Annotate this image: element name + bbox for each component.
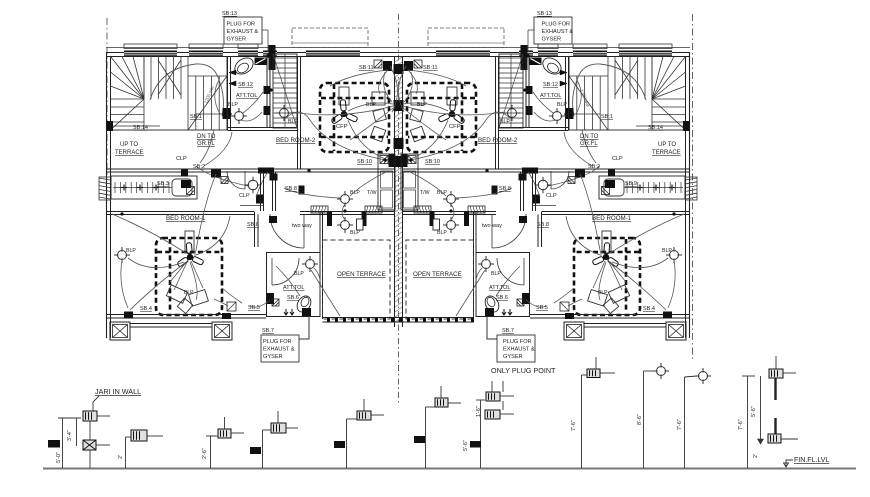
wires bedroom-2: [348, 103, 393, 111]
svg-text:PLUG FOR: PLUG FOR: [542, 22, 571, 28]
svg-text:BLP: BLP: [437, 230, 447, 236]
svg-text:CLP: CLP: [612, 156, 623, 162]
svg-text:BLP: BLP: [288, 119, 298, 125]
elevation stem 6: [425, 407, 427, 468]
ceiling fan CFP bedroom-2: [331, 100, 358, 125]
svg-text:EXHAUST &: EXHAUST &: [227, 29, 259, 35]
bed (bedroom-2): [320, 83, 389, 152]
wall toilet/duct: [266, 57, 268, 129]
svg-text:SB:12: SB:12: [238, 82, 253, 88]
svg-text:SB.6: SB.6: [496, 295, 508, 301]
window sill outline x189: [189, 44, 223, 49]
svg-text:BLP: BLP: [500, 119, 510, 125]
staircase: [111, 57, 228, 131]
roof edge line: [106, 47, 690, 49]
svg-text:TERRACE: TERRACE: [115, 150, 144, 156]
hall/front wall y169: [107, 168, 395, 170]
svg-text:PLUG FOR: PLUG FOR: [503, 339, 532, 345]
SB.4 socket block: [124, 312, 133, 319]
stair wire arc (1200 watt run): [150, 64, 223, 116]
party wall block hub: [394, 100, 404, 111]
black box att.toilet south: [302, 308, 311, 316]
svg-text:SB:14: SB:14: [648, 125, 663, 131]
svg-text:2': 2': [118, 455, 124, 459]
junction dot: [269, 88, 272, 91]
SB:10 wall block: [389, 154, 395, 167]
wire SB.5 to bed: [222, 288, 242, 303]
svg-text:ATT.TOL: ATT.TOL: [236, 93, 258, 99]
elevation stem 8'-6" with lamp: [643, 371, 645, 468]
svg-text:SB:13: SB:13: [222, 11, 237, 17]
lamp BLP corridor lower: [337, 217, 353, 233]
center party line (dash-dot): [398, 14, 400, 405]
window sill hatched x365: [365, 206, 382, 213]
svg-text:SB:10: SB:10: [357, 159, 372, 165]
SB:1 connection box on stair wall: [223, 108, 231, 119]
svg-text:BLP: BLP: [662, 248, 672, 254]
junction dot: [383, 158, 386, 161]
door arc into att.toilet: [272, 258, 299, 285]
arrow marks toilet: [229, 70, 236, 75]
svg-text:SB.8: SB.8: [499, 186, 511, 192]
elevation right stack: socket boxes: [769, 369, 783, 378]
svg-text:SB:2: SB:2: [193, 164, 205, 170]
black box at bedroom1 door: [269, 216, 277, 223]
svg-text:7'-6": 7'-6": [571, 420, 577, 431]
elevation: leftmost wall tick: [48, 440, 60, 448]
svg-text:SB.5: SB.5: [536, 305, 548, 311]
SB:14 connection box on wall: [107, 121, 114, 131]
party wall center: [394, 56, 396, 327]
wire att.toilet: [276, 266, 300, 296]
bedroom-2 west wall: [297, 57, 299, 170]
bedroom-1 south wall: [107, 314, 267, 316]
svg-text:5'-0": 5'-0": [56, 452, 62, 463]
svg-text:1'-6": 1'-6": [476, 406, 482, 417]
SB:11 wall block: [383, 61, 392, 71]
lamp BLP toilet: [231, 108, 247, 124]
kitchen hatched switch: [187, 187, 195, 195]
door arc hall to kitchen: [227, 171, 245, 189]
SB:13 plug box top: [224, 17, 262, 44]
svg-text:BED ROOM-2: BED ROOM-2: [478, 137, 518, 144]
svg-text:7'-6": 7'-6": [738, 419, 744, 430]
bed (bedroom-1): [156, 238, 222, 315]
svg-text:PLUG FOR: PLUG FOR: [227, 22, 256, 28]
svg-text:SB:11: SB:11: [423, 65, 438, 71]
junction dot: [387, 61, 390, 64]
svg-text:BED ROOM-2: BED ROOM-2: [276, 137, 316, 144]
svg-text:GYSER: GYSER: [263, 354, 283, 360]
svg-text:BLP: BLP: [350, 230, 360, 236]
svg-text:two way: two way: [292, 223, 312, 229]
lamp BLP bedroom-2 outer: [276, 105, 292, 121]
svg-text:SB:1: SB:1: [190, 114, 202, 120]
svg-text:GR.FL: GR.FL: [197, 141, 215, 147]
wire toilet lamp: [243, 92, 263, 113]
black junction toilet wall: [264, 86, 271, 94]
svg-text:BLP: BLP: [417, 102, 427, 108]
window lintel block x263: [263, 51, 277, 57]
floor baseline: [43, 468, 856, 470]
svg-text:BLP: BLP: [557, 102, 567, 108]
hatched switch att.toilet: [272, 299, 279, 306]
svg-text:FIN.FL.LVL: FIN.FL.LVL: [794, 457, 829, 464]
svg-text:OPEN TERRACE: OPEN TERRACE: [337, 271, 386, 278]
svg-text:SB.7: SB.7: [262, 328, 274, 334]
wires hall: [196, 166, 248, 186]
elevation dim 7'-6" right: [747, 376, 749, 468]
svg-text:SB.8: SB.8: [247, 222, 259, 228]
svg-text:2': 2': [753, 454, 759, 458]
elevation stem 7'-6": [581, 375, 583, 468]
svg-text:SB.7: SB.7: [502, 328, 514, 334]
black box toilet west wall: [267, 293, 275, 304]
junction dot: [343, 209, 346, 212]
door jamb terrace-door A: [327, 212, 332, 227]
svg-text:BLP: BLP: [366, 102, 376, 108]
elevation dim 5'-6" right: [760, 376, 762, 444]
wall stairs/toilet: [227, 57, 229, 131]
svg-text:SB.4: SB.4: [140, 306, 152, 312]
junction block wall y169: [181, 170, 188, 177]
terrace west edge wall: [322, 212, 324, 320]
nook walls right of kitchen: [260, 172, 262, 211]
lamp BLP bedroom-1: [114, 247, 130, 263]
down arrows att.toilet: [284, 309, 288, 315]
wall y211: [107, 211, 255, 213]
svg-text:SB.3: SB.3: [157, 181, 169, 187]
svg-text:EXHAUST &: EXHAUST &: [542, 29, 574, 35]
pillow bedroom-2: [339, 87, 349, 105]
basin fixture on strip: [172, 179, 192, 196]
SB.8 wall block: [299, 186, 305, 195]
lamp att.toilet: [302, 256, 318, 272]
terrace-side wall above toilet: [319, 212, 321, 253]
svg-text:SB.8: SB.8: [285, 186, 297, 192]
svg-text:SB:11: SB:11: [359, 65, 374, 71]
wire bedroom1 lamp to SB.4: [121, 260, 128, 308]
elevation stem 5: [346, 419, 348, 468]
svg-text:DN TO: DN TO: [580, 134, 599, 140]
svg-text:5'-6": 5'-6": [751, 406, 757, 417]
bed-1 internal line B: [169, 239, 172, 310]
plug-for-exhaust box bottom: [261, 335, 299, 362]
property line right (dash-dot): [692, 14, 694, 360]
SB.5 wall block: [222, 313, 231, 319]
svg-text:UP TO: UP TO: [120, 142, 138, 148]
hatched switch near SB:2: [221, 177, 228, 184]
svg-text:BLP: BLP: [126, 248, 136, 254]
window hatch on outer wall: [99, 178, 110, 199]
svg-text:8'-6": 8'-6": [637, 414, 643, 425]
svg-text:GYSER: GYSER: [503, 354, 523, 360]
wire att.toilet lamp: [314, 268, 320, 290]
svg-text:CLP: CLP: [239, 193, 250, 199]
svg-text:BLP: BLP: [228, 102, 238, 108]
svg-text:BED ROOM-1: BED ROOM-1: [592, 215, 632, 222]
svg-text:SB:14: SB:14: [133, 125, 148, 131]
elevation stem 7'-6" with lamp: [684, 377, 686, 468]
svg-text:ATT.TOL: ATT.TOL: [283, 285, 305, 291]
svg-text:UP TO: UP TO: [658, 142, 676, 148]
svg-text:two way: two way: [482, 223, 502, 229]
svg-text:BED ROOM-1: BED ROOM-1: [166, 215, 206, 222]
terrace railing with ticks: [323, 317, 475, 319]
svg-text:3'-4": 3'-4": [67, 430, 73, 441]
svg-text:T/W: T/W: [420, 190, 430, 196]
SB:2 switch block on wall: [211, 170, 221, 178]
svg-text:BLP: BLP: [350, 190, 360, 196]
svg-text:EXHAUST &: EXHAUST &: [263, 347, 295, 353]
svg-text:7'-6": 7'-6": [677, 419, 683, 430]
door jamb block on y169 wall: [258, 168, 274, 174]
junction dot: [266, 54, 269, 57]
chhajja projection (dashed): [292, 28, 368, 48]
bedside tables bedroom-2: [372, 92, 385, 105]
SB:11 switch square: [374, 60, 382, 68]
svg-text:ATT.TOL: ATT.TOL: [489, 285, 511, 291]
door jamb terrace-door B: [362, 212, 367, 227]
svg-text:TERRACE: TERRACE: [652, 150, 681, 156]
window sill outline x238: [238, 44, 258, 49]
svg-text:CLP: CLP: [176, 156, 187, 162]
svg-text:CFP: CFP: [449, 124, 461, 130]
pillow/headboard bedroom-1: [185, 231, 194, 253]
junction dot: [307, 169, 310, 172]
black column block duct top: [269, 45, 276, 70]
top wall inner face: [106, 56, 690, 58]
shower/geyser symbol: [255, 58, 267, 66]
bed-2 internal line B: [321, 136, 388, 139]
svg-text:ONLY PLUG POINT: ONLY PLUG POINT: [491, 366, 556, 375]
svg-text:BLP: BLP: [491, 271, 501, 277]
window lintel block x124: [124, 51, 177, 57]
junction box below CLP: [256, 195, 264, 204]
svg-text:2'-6": 2'-6": [202, 448, 208, 459]
party wall block mid: [394, 156, 404, 167]
column X-box x110: [110, 322, 130, 340]
WC pan (toilet top): [232, 55, 256, 78]
wire corridor lamps link: [342, 204, 345, 220]
bed-2 internal line A: [321, 97, 388, 100]
junction dot: [120, 212, 123, 215]
svg-text:BLP: BLP: [184, 290, 194, 296]
svg-text:SB.4: SB.4: [643, 306, 655, 312]
elevation: dim lines left: [62, 418, 64, 468]
window sill outline x124: [124, 44, 177, 49]
svg-text:DN TO: DN TO: [197, 134, 216, 140]
open terrace boundary (dashed): [323, 240, 391, 319]
elevation stem 3 (2ft-6in): [210, 436, 212, 468]
svg-text:GYSER: GYSER: [542, 37, 562, 43]
right unit (mirror of left): [398, 17, 697, 362]
fan regulator box (X): [83, 440, 96, 450]
door swing arc hall->bedroom1: [270, 214, 304, 248]
svg-text:SB:1: SB:1: [601, 114, 613, 120]
svg-text:JARI IN WALL: JARI IN WALL: [95, 387, 141, 396]
bed-2 internal line C: [333, 84, 336, 151]
elevation stem 4: [262, 430, 264, 468]
window lintel block x238: [238, 51, 258, 57]
att.toilet bottom room: [267, 253, 321, 317]
lamp BLP corridor upper: [337, 191, 353, 207]
svg-text:GR.FL: GR.FL: [580, 141, 598, 147]
wire SB:2 down to bedroom-1 fan: [195, 174, 216, 257]
wardrobe / cabinet strip: [111, 176, 197, 199]
window between footings: [130, 323, 212, 325]
pillows bedroom-1: [166, 285, 187, 303]
svg-text:ATT.TOL: ATT.TOL: [540, 93, 562, 99]
svg-text:T/W: T/W: [367, 190, 377, 196]
window lintel block x189: [189, 51, 223, 57]
cupboard column near party wall: [378, 154, 395, 210]
svg-text:CFP: CFP: [336, 124, 348, 130]
column X-box x212: [212, 322, 232, 340]
switch box jari upper: [83, 411, 97, 421]
party wall block top: [394, 64, 404, 74]
property line left (dash-dot): [106, 18, 108, 177]
junction dot: [228, 112, 231, 115]
svg-text:BLP: BLP: [437, 190, 447, 196]
SB.5 hatched box: [227, 302, 236, 311]
SB:10 switch square: [380, 156, 388, 164]
SB.7 plug box leader: [299, 316, 309, 339]
ceiling fan bedroom-1: [177, 243, 204, 268]
toilet bottom wall: [228, 127, 298, 129]
svg-text:SB:12: SB:12: [543, 82, 558, 88]
svg-text:SB.6: SB.6: [287, 295, 299, 301]
svg-text:SB.9: SB.9: [625, 181, 637, 187]
WC pan att.toilet: [294, 294, 313, 315]
svg-text:PLUG FOR: PLUG FOR: [263, 339, 292, 345]
bed-1 internal line A: [157, 251, 221, 254]
black box nook: [270, 174, 278, 181]
svg-text:SB:10: SB:10: [425, 159, 440, 165]
svg-text:5'-6": 5'-6": [463, 440, 469, 451]
svg-text:SB.5: SB.5: [248, 305, 260, 311]
svg-text:OPEN TERRACE: OPEN TERRACE: [413, 271, 462, 278]
elevation dim 5ft-6in: [480, 400, 482, 468]
window lintel block x306: [306, 51, 360, 57]
svg-text:SB:2: SB:2: [588, 164, 600, 170]
elevation stem 2 (2ft): [125, 437, 127, 468]
wall bedroom1/passage x255: [254, 212, 256, 248]
svg-text:BLP: BLP: [294, 271, 304, 277]
top wall outer face: [106, 52, 690, 54]
svg-text:CLP: CLP: [546, 193, 557, 199]
duct shaft: [273, 54, 297, 128]
svg-text:EXHAUST &: EXHAUST &: [503, 347, 535, 353]
svg-text:GYSER: GYSER: [227, 37, 247, 43]
outer wall left: [106, 52, 108, 338]
wires bedroom-1: [196, 216, 230, 255]
svg-text:SB:13: SB:13: [537, 11, 552, 17]
svg-text:SB.8: SB.8: [537, 222, 549, 228]
wire att lamp to railing: [311, 270, 340, 316]
door leaf rect: [357, 219, 364, 230]
window sill hatched x311: [311, 206, 328, 213]
svg-text:BLP: BLP: [598, 290, 608, 296]
party wall block y138: [394, 138, 404, 149]
lamp CLP kitchen: [245, 177, 262, 194]
